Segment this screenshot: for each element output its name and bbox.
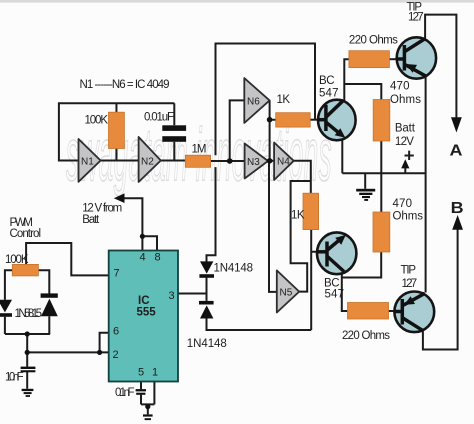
svg-text:BC: BC bbox=[319, 75, 335, 87]
svg-text:B: B bbox=[451, 200, 464, 217]
svg-text:555: 555 bbox=[137, 307, 157, 319]
svg-text:7: 7 bbox=[114, 268, 120, 280]
svg-text:127: 127 bbox=[402, 278, 418, 290]
svg-text:3: 3 bbox=[169, 290, 175, 302]
svg-text:+: + bbox=[404, 145, 415, 166]
svg-text:N4: N4 bbox=[277, 157, 290, 168]
svg-text:547: 547 bbox=[325, 289, 345, 301]
svg-text:1: 1 bbox=[152, 367, 158, 379]
svg-text:12 V from: 12 V from bbox=[82, 203, 122, 215]
svg-text:Batt: Batt bbox=[82, 214, 100, 226]
svg-text:1N4148: 1N4148 bbox=[187, 338, 227, 350]
svg-text:0.01uF: 0.01uF bbox=[144, 112, 174, 124]
svg-text:N3: N3 bbox=[247, 157, 260, 168]
svg-text:547: 547 bbox=[319, 88, 339, 100]
svg-text:5: 5 bbox=[138, 367, 144, 379]
svg-text:6: 6 bbox=[113, 326, 119, 338]
svg-text:1N4148: 1N4148 bbox=[214, 263, 254, 275]
svg-text:470: 470 bbox=[393, 198, 413, 210]
svg-text:470: 470 bbox=[390, 81, 410, 93]
svg-text:Control: Control bbox=[10, 228, 42, 240]
svg-text:N6: N6 bbox=[247, 97, 260, 108]
svg-text:Batt: Batt bbox=[395, 123, 416, 135]
svg-text:10nF: 10nF bbox=[5, 372, 24, 384]
svg-text:N1: N1 bbox=[81, 157, 94, 168]
svg-text:1K: 1K bbox=[277, 94, 291, 106]
svg-text:100K: 100K bbox=[85, 115, 109, 127]
svg-text:Ohms: Ohms bbox=[393, 211, 424, 223]
svg-text:1M: 1M bbox=[192, 144, 207, 156]
svg-text:N1 ------N6 = IC 4049: N1 ------N6 = IC 4049 bbox=[80, 79, 170, 91]
svg-text:0.1nF: 0.1nF bbox=[115, 387, 135, 399]
svg-text:2: 2 bbox=[113, 349, 119, 361]
svg-text:1N5815: 1N5815 bbox=[15, 308, 43, 320]
svg-text:8: 8 bbox=[155, 252, 161, 264]
svg-text:1K: 1K bbox=[291, 210, 305, 222]
svg-text:220 Ohms: 220 Ohms bbox=[349, 35, 398, 47]
svg-text:220 Ohms: 220 Ohms bbox=[342, 330, 390, 342]
svg-text:TIP: TIP bbox=[401, 265, 417, 277]
svg-text:N2: N2 bbox=[141, 157, 154, 168]
svg-text:N5: N5 bbox=[280, 288, 293, 299]
svg-text:100K: 100K bbox=[5, 254, 29, 266]
svg-text:4: 4 bbox=[140, 252, 146, 264]
svg-text:A: A bbox=[450, 143, 463, 160]
svg-text:IC: IC bbox=[138, 295, 150, 307]
svg-text:127: 127 bbox=[408, 12, 424, 24]
svg-text:Ohms: Ohms bbox=[390, 94, 421, 106]
